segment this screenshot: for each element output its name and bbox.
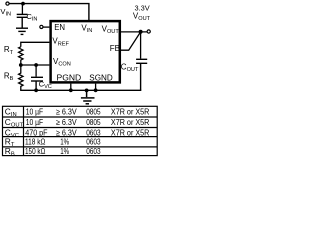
table row RB <box>5 146 101 158</box>
node junction dot SGND <box>94 88 98 92</box>
node junction dot RT RB VCON <box>19 63 23 67</box>
table row CIN <box>5 106 150 118</box>
capacitor COUT <box>136 59 147 90</box>
svg-text:X7R or X5R: X7R or X5R <box>111 127 149 137</box>
node EN terminal <box>40 25 43 28</box>
svg-text:0805: 0805 <box>86 106 101 116</box>
table component values <box>3 106 158 155</box>
svg-text:≥ 6.3V: ≥ 6.3V <box>56 117 77 127</box>
svg-text:X7R or X5R: X7R or X5R <box>111 117 149 127</box>
wire PGND pin <box>70 84 72 91</box>
wire CIN top lead <box>21 4 23 14</box>
capacitor CVC <box>31 77 43 90</box>
wire ground rail <box>20 89 141 91</box>
node junction dot CIN <box>21 2 25 6</box>
node junction dot PGND <box>69 88 73 92</box>
node junction dot ground stub <box>85 89 89 93</box>
node junction dot VOUT <box>139 30 143 34</box>
table row CVC <box>5 127 150 139</box>
wire CVC lead <box>35 65 37 77</box>
node junction dot CVC rail <box>34 88 38 92</box>
svg-text:X7R or X5R: X7R or X5R <box>111 106 149 116</box>
svg-text:≥ 6.3V: ≥ 6.3V <box>56 106 77 116</box>
wire VOUT <box>121 31 147 33</box>
resistor RT <box>19 47 23 64</box>
resistor RB <box>19 65 23 90</box>
ground main symbol <box>81 90 95 103</box>
svg-text:FB: FB <box>110 44 120 53</box>
svg-text:10 µF: 10 µF <box>26 117 43 127</box>
wire VREF <box>21 42 50 47</box>
svg-text:0805: 0805 <box>86 117 101 127</box>
wire SGND pin <box>95 84 97 91</box>
wire top rail VIN to IC <box>9 4 89 21</box>
svg-text:0603: 0603 <box>86 146 101 156</box>
node junction dot CVC <box>34 63 38 67</box>
svg-text:1%: 1% <box>60 146 69 156</box>
capacitor CIN <box>17 14 28 27</box>
svg-text:SGND: SGND <box>89 73 113 83</box>
wire EN <box>43 26 49 28</box>
node VOUT terminal <box>147 30 150 33</box>
table row COUT <box>5 117 150 129</box>
wire VCON <box>21 64 50 66</box>
table row RT <box>5 137 101 149</box>
svg-text:PGND: PGND <box>57 73 82 83</box>
ground CIN <box>16 28 28 34</box>
node VIN terminal <box>6 2 9 5</box>
svg-text:10 µF: 10 µF <box>26 106 43 116</box>
op-amp U1 regulator box <box>51 21 120 82</box>
svg-text:EN: EN <box>54 23 65 32</box>
wire FB <box>121 33 140 51</box>
svg-text:150 kΩ: 150 kΩ <box>25 146 45 156</box>
wire COUT top lead <box>140 32 142 59</box>
